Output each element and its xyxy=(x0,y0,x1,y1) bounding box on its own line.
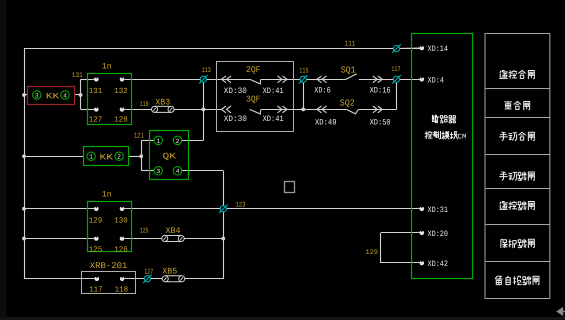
terminal 117 xyxy=(95,277,100,282)
bottom window edge strip xyxy=(0,317,565,320)
terminal XD:31 xyxy=(420,207,425,212)
SQ2 right plug arrows xyxy=(373,106,383,113)
junction left bus / KK12 row xyxy=(22,154,26,158)
QK pin 4 xyxy=(173,167,181,176)
switch QK box xyxy=(150,131,189,180)
wire SQ2 left lead xyxy=(303,109,346,111)
SQ2 left plug arrows xyxy=(317,106,327,113)
connector XB4 xyxy=(162,236,185,242)
relay 1n (upper) box xyxy=(88,74,132,125)
QK pin 1 xyxy=(154,136,162,145)
wire to QK pin1 xyxy=(141,140,154,142)
svg-text:XD:16: XD:16 xyxy=(370,87,391,96)
svg-text:127: 127 xyxy=(89,115,103,124)
terminal 129 xyxy=(94,207,99,212)
svg-text:131: 131 xyxy=(72,72,83,80)
wire branch to terminal 131 xyxy=(81,79,94,81)
left window edge strip xyxy=(0,0,7,320)
svg-text:XD:30: XD:30 xyxy=(224,87,247,96)
2QF left plug arrows xyxy=(222,76,232,83)
svg-text:117: 117 xyxy=(89,286,103,295)
svg-text:XD:30: XD:30 xyxy=(224,115,247,124)
table label auto-transfer trip xyxy=(495,276,539,284)
terminal 131 xyxy=(94,77,99,82)
wire QK branch vertical xyxy=(141,140,143,170)
svg-text:KK: KK xyxy=(46,91,61,101)
wire XB4 to vertical xyxy=(181,238,224,240)
node 123 xyxy=(219,205,228,214)
svg-text:QK: QK xyxy=(163,152,178,162)
svg-text:127: 127 xyxy=(144,268,153,276)
terminal 132 xyxy=(120,77,125,82)
wire bus to KK 1-2 xyxy=(24,156,83,158)
terminal 125 xyxy=(94,236,99,241)
svg-text:2: 2 xyxy=(117,154,121,161)
svg-text:XD:41: XD:41 xyxy=(263,115,284,124)
junction left bus / KK row xyxy=(22,93,26,97)
svg-text:123: 123 xyxy=(236,201,246,209)
wire bus to KK 3-4 xyxy=(24,94,28,96)
svg-text:119: 119 xyxy=(140,101,149,109)
svg-text:XB4: XB4 xyxy=(166,226,181,236)
wire XB5 to vertical xyxy=(181,278,223,280)
function table grid xyxy=(485,34,550,299)
KK pin 4 xyxy=(61,91,69,100)
wire QK pin4 right xyxy=(182,170,224,172)
svg-text:125: 125 xyxy=(140,227,149,235)
KK pin 1 xyxy=(87,152,95,161)
svg-text:XD:42: XD:42 xyxy=(428,260,449,269)
breaker plug box outline xyxy=(217,62,294,132)
wire XD:20 bracket horizontal xyxy=(381,232,420,234)
svg-text:118: 118 xyxy=(115,286,129,295)
wire 2QF left lead xyxy=(203,79,249,81)
2QF right plug arrows xyxy=(278,76,288,83)
svg-text:XD:49: XD:49 xyxy=(315,119,337,128)
wire 2QF right lead to node 115 xyxy=(261,79,304,81)
svg-text:SQ1: SQ1 xyxy=(341,65,356,76)
wire vertical QK4 to XB5 row xyxy=(223,171,225,279)
svg-text:XD:14: XD:14 xyxy=(428,45,449,54)
wire left bus xyxy=(24,49,26,279)
table label protection trip xyxy=(501,239,534,247)
KK pin 3 xyxy=(33,91,41,100)
junction node113 / 3QF row xyxy=(202,108,206,112)
2QF blade xyxy=(250,79,261,84)
wire 118 to node 127 xyxy=(125,278,144,280)
terminal 127 xyxy=(94,107,99,112)
wire KK2 to QK branch xyxy=(129,156,141,158)
svg-text:3: 3 xyxy=(35,92,39,99)
svg-text:XB5: XB5 xyxy=(162,267,177,277)
SQ2 blade xyxy=(347,109,359,114)
terminal 118 xyxy=(120,277,125,282)
svg-text:XD:50: XD:50 xyxy=(370,119,391,128)
svg-text:130: 130 xyxy=(114,216,128,225)
wire bus to terminal 125 xyxy=(24,238,94,240)
connector XB5 xyxy=(162,276,185,282)
switch KK contacts 1-2 box xyxy=(84,147,129,166)
3QF right plug arrows xyxy=(278,106,288,113)
wire XB3 to 3QF xyxy=(174,109,222,111)
node 127 xyxy=(143,275,152,284)
wire bus to terminal 129 xyxy=(24,208,94,210)
wire node115 vertical xyxy=(303,79,305,109)
wire node111 to XD:14 xyxy=(397,47,420,50)
small box marker xyxy=(285,182,295,193)
svg-text:XD:6: XD:6 xyxy=(314,87,331,96)
SQ1 left plug arrows xyxy=(317,76,327,83)
relay 1n (lower) box xyxy=(88,202,132,252)
wire 3QF right lead xyxy=(261,109,304,111)
wire 126 to XB4 xyxy=(124,238,165,240)
wire branch vertical xyxy=(80,79,82,109)
junction node115 / SQ2 row xyxy=(301,108,305,112)
svg-text:1n: 1n xyxy=(102,189,112,199)
svg-text:115: 115 xyxy=(299,67,308,75)
svg-text:2QF: 2QF xyxy=(246,65,261,75)
cursor arrow xyxy=(558,308,565,315)
svg-text:126: 126 xyxy=(114,245,128,254)
svg-text:1n: 1n xyxy=(102,61,112,71)
wire QK pin2 to node113 vertical xyxy=(182,140,204,142)
svg-text:XD:20: XD:20 xyxy=(428,230,449,239)
connector XB3 xyxy=(152,106,175,112)
terminal XD:4 xyxy=(420,77,425,82)
node 117 xyxy=(392,75,401,84)
svg-text:111: 111 xyxy=(345,40,356,48)
wire 130 to XD:31 xyxy=(124,208,420,210)
svg-text:3: 3 xyxy=(156,168,160,175)
SQ1 blade xyxy=(346,74,357,80)
terminal 128 xyxy=(120,107,125,112)
wire branch to terminal 127 xyxy=(81,109,94,111)
label CM line2 (control module) xyxy=(425,131,457,139)
svg-text:4: 4 xyxy=(176,168,180,175)
svg-text:XRB-201: XRB-201 xyxy=(90,261,128,271)
wire 128 to XB3 xyxy=(124,109,152,111)
svg-text:CM: CM xyxy=(458,133,467,141)
svg-text:129: 129 xyxy=(89,216,103,225)
junction left bus / 129 row xyxy=(22,207,26,211)
junction QK branch xyxy=(139,154,143,158)
svg-text:128: 128 xyxy=(114,115,128,124)
wire KK4 to 1n junction xyxy=(75,94,81,96)
svg-text:132: 132 xyxy=(114,87,128,96)
wire node113 vertical to QK pin2 xyxy=(203,79,205,140)
QK pin 2 xyxy=(173,136,181,145)
wire SQ2 up to node 117 xyxy=(396,79,398,109)
svg-text:XD:31: XD:31 xyxy=(428,206,449,215)
3QF left plug arrows xyxy=(222,106,232,113)
terminal 126 xyxy=(120,236,125,241)
table label reclose xyxy=(505,101,530,109)
table label manual trip xyxy=(500,172,535,180)
svg-text:121: 121 xyxy=(134,132,144,140)
svg-text:3QF: 3QF xyxy=(246,95,261,105)
wire SQ1 right lead xyxy=(359,79,397,81)
wire bottom to XRB terminal 117 xyxy=(24,278,95,280)
wire node117 to XD:4 xyxy=(397,79,420,81)
terminal block XRB-201 box xyxy=(82,272,136,294)
svg-text:XD:4: XD:4 xyxy=(428,77,445,86)
3QF blade xyxy=(250,109,261,114)
table label remote close xyxy=(500,70,535,78)
terminal XD:14 xyxy=(420,46,425,51)
svg-text:131: 131 xyxy=(89,87,103,96)
QK pin 3 xyxy=(154,167,162,176)
SQ1 right plug arrows xyxy=(373,76,383,83)
table label manual close xyxy=(500,132,535,140)
node 111 xyxy=(392,44,401,53)
svg-text:1: 1 xyxy=(156,138,160,145)
node 115 xyxy=(299,75,308,84)
terminal XD:20 xyxy=(420,231,425,236)
junction XB4 row / vertical xyxy=(221,237,225,241)
svg-text:XD:41: XD:41 xyxy=(263,87,284,96)
switch KK contacts 3-4 box xyxy=(28,87,75,105)
svg-text:113: 113 xyxy=(202,67,211,75)
svg-text:117: 117 xyxy=(391,66,400,74)
node 113 xyxy=(199,75,208,84)
terminal XD:42 xyxy=(420,261,425,266)
wire to QK pin3 xyxy=(141,170,154,172)
svg-text:2: 2 xyxy=(176,138,180,145)
wire XD:20/42 bracket vertical xyxy=(380,233,382,263)
table label remote trip xyxy=(500,201,535,209)
junction 131/127 branch xyxy=(79,93,83,97)
wire 132 to node 113 xyxy=(124,79,203,81)
terminal 130 xyxy=(120,207,125,212)
junction left bus / 125 row xyxy=(22,237,26,241)
svg-text:SQ2: SQ2 xyxy=(340,97,355,108)
svg-text:4: 4 xyxy=(63,92,67,99)
svg-text:KK: KK xyxy=(100,153,115,163)
breaker control module CM box xyxy=(412,34,473,279)
wire top bus net 111 xyxy=(24,48,420,50)
wire SQ1 left lead xyxy=(303,79,346,81)
svg-text:125: 125 xyxy=(89,245,103,254)
svg-text:1: 1 xyxy=(89,154,93,161)
wire XD:42 bracket horizontal xyxy=(381,262,420,264)
wire SQ2 right lead xyxy=(358,109,396,111)
svg-text:129: 129 xyxy=(366,249,379,257)
KK pin 2 xyxy=(115,152,123,161)
label CM line1 (breaker) xyxy=(432,115,455,123)
wire node127 to XB5 xyxy=(151,278,166,280)
